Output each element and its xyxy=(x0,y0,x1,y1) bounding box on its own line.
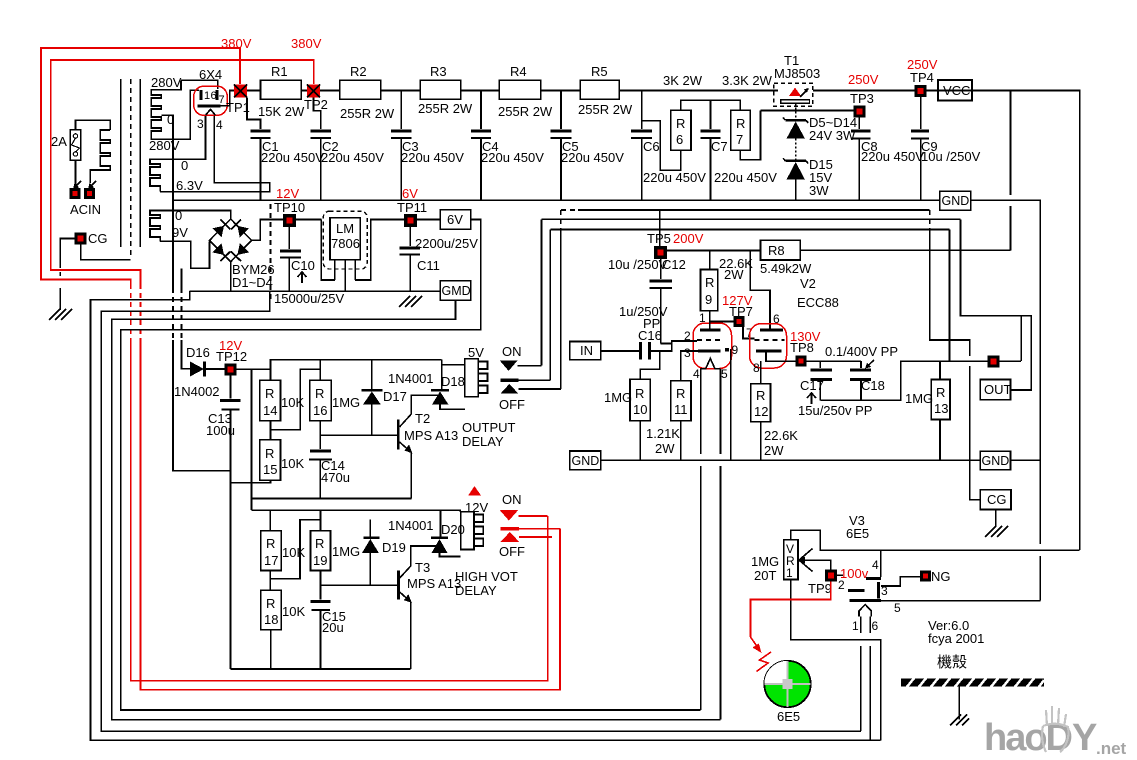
capacitor C10 xyxy=(288,227,290,249)
wire chassis to earth xyxy=(958,687,960,720)
wire pin4 plate xyxy=(880,550,882,577)
svg-text:1.21K: 1.21K xyxy=(646,426,680,441)
capacitor C12 xyxy=(660,259,662,279)
wire emitter return xyxy=(252,498,412,500)
plate pin1 bar xyxy=(199,90,202,100)
svg-text:LM: LM xyxy=(336,221,354,236)
svg-text:14: 14 xyxy=(263,403,277,418)
capacitor C7 xyxy=(710,100,712,129)
resistor R18 xyxy=(261,590,282,630)
svg-text:6.3V: 6.3V xyxy=(176,178,203,193)
resistor R7 xyxy=(731,110,751,150)
svg-text:T3: T3 xyxy=(415,560,430,575)
svg-text:6E5: 6E5 xyxy=(846,526,869,541)
svg-text:1N4001: 1N4001 xyxy=(388,371,434,386)
svg-text:6: 6 xyxy=(211,90,217,102)
triode2 envelope red xyxy=(750,324,787,369)
svg-text:GND: GND xyxy=(942,194,970,208)
capacitor C14 xyxy=(310,450,331,453)
svg-text:10u /250V: 10u /250V xyxy=(608,257,668,272)
relay coil K1 xyxy=(465,359,479,397)
svg-text:280V: 280V xyxy=(149,138,180,153)
capacitor C16 xyxy=(639,342,642,360)
svg-text:7: 7 xyxy=(736,132,743,147)
resistor R12 xyxy=(751,384,771,422)
svg-text:3: 3 xyxy=(684,346,691,360)
T2 collector xyxy=(400,395,442,427)
plate bar V3 xyxy=(866,577,881,580)
R13 legs xyxy=(939,361,941,379)
wire red 380V inner loop left xyxy=(51,60,314,284)
capacitor C1 xyxy=(247,98,261,130)
svg-text:4: 4 xyxy=(693,367,700,381)
switch ON contact red xyxy=(500,510,519,521)
svg-text:6: 6 xyxy=(676,132,683,147)
svg-text:4: 4 xyxy=(216,118,223,132)
svg-text:220u 450V: 220u 450V xyxy=(714,170,777,185)
resistor R19 xyxy=(320,510,322,531)
wire V2 heater pin4 xyxy=(700,369,702,454)
wire cathode V3 to gnd riser xyxy=(881,600,1040,602)
svg-text:22.6K: 22.6K xyxy=(764,428,798,443)
wire bus2 V3 heater xyxy=(101,291,861,731)
wire COM to bus xyxy=(518,379,550,381)
wire red ON to loop xyxy=(518,515,547,517)
svg-text:4: 4 xyxy=(872,558,879,572)
wire ON to bus xyxy=(518,365,542,367)
svg-text:6E5: 6E5 xyxy=(777,709,800,724)
wire CG bottom to core shield xyxy=(81,245,131,260)
svg-text:24V 3W: 24V 3W xyxy=(809,128,856,143)
resistor R9 leg xyxy=(709,251,711,270)
svg-text:ON: ON xyxy=(502,344,522,359)
capacitor C18 xyxy=(860,361,862,368)
grid1 dashed xyxy=(697,339,721,341)
wire R10 to gnd xyxy=(639,421,641,460)
svg-text:C10: C10 xyxy=(291,258,315,273)
wire delay rail jog xyxy=(271,360,442,370)
T1 red emitter triangle xyxy=(789,88,801,97)
svg-text:GND: GND xyxy=(982,454,1010,468)
diode D18 xyxy=(441,360,443,389)
VR1 wiper arrow xyxy=(799,549,813,561)
cathode bar 6X4 xyxy=(198,104,221,107)
T1 base bar xyxy=(781,100,810,104)
wire OUT line riser xyxy=(1020,316,1022,361)
wire 6.3V bottom to pin4 xyxy=(160,116,270,192)
wire red OFF stub xyxy=(519,536,552,538)
testpoint TP4 xyxy=(915,85,927,97)
svg-text:15: 15 xyxy=(263,462,277,477)
svg-text:17: 17 xyxy=(264,553,278,568)
svg-text:1MG: 1MG xyxy=(905,391,933,406)
wire OFF to bus xyxy=(518,388,561,390)
wire V3 heater pin6 xyxy=(869,616,871,633)
switch OFF contact xyxy=(501,384,519,394)
wire TP10 to LM7806 xyxy=(296,219,321,221)
svg-text:D17: D17 xyxy=(383,389,407,404)
testpoint TP5 xyxy=(654,246,667,259)
svg-text:CG: CG xyxy=(987,492,1007,507)
arrow into ACIN L xyxy=(74,181,81,188)
wire 200V rail xyxy=(667,250,761,252)
capacitor C5 xyxy=(560,91,562,130)
svg-text:220u 450V: 220u 450V xyxy=(481,150,544,165)
svg-text:C18: C18 xyxy=(861,378,885,393)
wire lower emitter/ground return xyxy=(231,668,411,670)
testpoint TP9 xyxy=(825,569,837,581)
resistor R11 xyxy=(671,381,691,421)
svg-text:TP9: TP9 xyxy=(808,581,832,596)
svg-text:7806: 7806 xyxy=(331,236,360,251)
zener stack D5~D14 xyxy=(785,119,806,121)
svg-text:5V: 5V xyxy=(468,345,484,360)
grid bar V3 xyxy=(848,589,864,592)
svg-text:NG: NG xyxy=(931,569,951,584)
resistor R8 xyxy=(761,240,801,260)
wire GMD to bus3 xyxy=(112,300,721,720)
resistor R2 xyxy=(340,80,381,99)
VCC riser with gap xyxy=(1010,91,1012,195)
cathode bar V3 xyxy=(849,599,881,602)
svg-text:TP5: TP5 xyxy=(647,231,671,246)
dashed shield line xyxy=(270,204,272,300)
svg-text:6: 6 xyxy=(872,619,879,633)
svg-text:18: 18 xyxy=(264,612,278,627)
svg-text:1: 1 xyxy=(852,619,859,633)
svg-text:5.49k2W: 5.49k2W xyxy=(760,261,812,276)
terminal box GMD xyxy=(440,281,471,301)
svg-text:D18: D18 xyxy=(441,374,465,389)
wire 9V top to bridge xyxy=(160,211,231,221)
diode D19 xyxy=(369,520,371,537)
svg-text:R: R xyxy=(315,536,324,551)
svg-text:ACIN: ACIN xyxy=(70,202,101,217)
secondary 280V winding xyxy=(151,80,199,139)
svg-text:200V: 200V xyxy=(673,231,704,246)
svg-text:TP3: TP3 xyxy=(850,91,874,106)
svg-text:3K 2W: 3K 2W xyxy=(663,73,703,88)
svg-text:R: R xyxy=(756,388,765,403)
svg-text:TP2: TP2 xyxy=(304,97,328,112)
bus COM riser xyxy=(550,229,949,231)
wire R8 right to VCC riser xyxy=(800,249,1010,251)
wire 0-tap dashed crossing xyxy=(172,288,174,340)
dotted link zeners xyxy=(795,139,797,161)
wire R9 bottom to plate1 xyxy=(709,311,711,330)
svg-text:220u 450V: 220u 450V xyxy=(861,149,924,164)
svg-text:ON: ON xyxy=(502,492,522,507)
wire caps bottom to OUT line xyxy=(820,361,1021,400)
svg-text:2: 2 xyxy=(838,578,845,592)
regulator U1 LM7806 dashed outline xyxy=(323,211,367,269)
svg-text:13: 13 xyxy=(934,401,948,416)
capacitor C4 xyxy=(480,91,482,130)
wire cathode to B+ rail xyxy=(220,91,234,106)
resistor R3 xyxy=(420,80,461,99)
svg-text:250V: 250V xyxy=(848,72,879,87)
secondary 9V winding xyxy=(150,211,160,242)
resistor R15 xyxy=(260,440,281,481)
svg-text:0: 0 xyxy=(167,112,174,127)
terminal ACIN left xyxy=(70,188,81,199)
svg-text:R: R xyxy=(705,275,714,290)
svg-text:1MG: 1MG xyxy=(332,544,360,559)
svg-text:TP12: TP12 xyxy=(216,349,247,364)
svg-text:9V: 9V xyxy=(172,225,188,240)
svg-text:2W: 2W xyxy=(724,267,744,282)
svg-text:OUTPUT: OUTPUT xyxy=(462,420,516,435)
testpoint TP8 xyxy=(796,355,807,366)
red wire TP9 to eye pointer xyxy=(751,582,831,638)
wire TP3 line xyxy=(761,110,854,112)
red zigzag flash xyxy=(757,652,772,672)
svg-text:5: 5 xyxy=(894,601,901,615)
svg-text:1N4001: 1N4001 xyxy=(388,518,434,533)
svg-text:15K 2W: 15K 2W xyxy=(258,104,305,119)
pin3 target bar xyxy=(877,582,880,599)
svg-text:D1~D4: D1~D4 xyxy=(232,275,273,290)
svg-text:C6: C6 xyxy=(643,139,660,154)
wire TP12 rail xyxy=(237,368,271,370)
cathode2 bar xyxy=(756,349,782,352)
pointer arrow to C18 xyxy=(866,360,874,368)
svg-text:GMD: GMD xyxy=(442,284,471,298)
svg-text:1MG: 1MG xyxy=(751,554,779,569)
earth symbol chassis xyxy=(950,715,961,726)
svg-text:MPS A13: MPS A13 xyxy=(407,576,461,591)
transformer core left xyxy=(120,79,122,247)
svg-text:1: 1 xyxy=(699,311,706,325)
svg-text:1N4002: 1N4002 xyxy=(174,384,220,399)
svg-text:fcya 2001: fcya 2001 xyxy=(928,631,984,646)
signal ground bus xyxy=(601,459,980,461)
svg-text:MPS A13: MPS A13 xyxy=(404,428,458,443)
wire V3 heater pin1 xyxy=(860,616,862,633)
B+ far right riser xyxy=(938,91,1080,551)
wire R16 to C14/base xyxy=(319,421,321,449)
ground symbol under C11 xyxy=(399,296,410,307)
svg-text:470u: 470u xyxy=(321,470,350,485)
svg-text:2A: 2A xyxy=(51,134,67,149)
LV ground rail xyxy=(190,290,441,292)
T3 emitter with arrow xyxy=(400,592,411,602)
svg-text:C12: C12 xyxy=(662,257,686,272)
svg-text:TP11: TP11 xyxy=(397,200,427,215)
switch common bar xyxy=(501,378,519,382)
svg-text:20u: 20u xyxy=(322,620,344,635)
wire R12 to gnd xyxy=(760,422,762,461)
svg-text:12: 12 xyxy=(754,404,768,419)
svg-text:11: 11 xyxy=(674,402,688,417)
svg-text:255R 2W: 255R 2W xyxy=(498,104,553,119)
svg-text:R: R xyxy=(936,385,945,400)
wire R5 to T1 xyxy=(619,90,778,92)
svg-text:3: 3 xyxy=(197,117,204,131)
arrow into ACIN R xyxy=(89,181,96,188)
svg-text:16: 16 xyxy=(313,403,327,418)
svg-text:15u/250v PP: 15u/250v PP xyxy=(798,403,872,418)
wire red vertical to bottom loop2 xyxy=(141,342,561,690)
polarity arrow C17 xyxy=(811,393,813,404)
transistor T1 MJ8503 dashed box xyxy=(774,83,813,106)
svg-text:6V: 6V xyxy=(402,186,418,201)
terminal CG chassis xyxy=(75,233,87,245)
cathode1 bar xyxy=(698,349,721,352)
svg-text:OFF: OFF xyxy=(499,544,525,559)
bus right OFF to CG xyxy=(929,210,931,228)
wire plate1 to TP7 xyxy=(710,321,734,323)
wire pin3 to NG xyxy=(881,577,920,586)
svg-text:R4: R4 xyxy=(510,64,527,79)
svg-text:TP8: TP8 xyxy=(790,340,814,355)
wire GND right to riser xyxy=(1011,459,1041,461)
svg-text:220u 450V: 220u 450V xyxy=(261,150,324,165)
ground symbol bottom-left xyxy=(59,288,61,310)
wire V2 heater pin5 xyxy=(720,369,722,454)
wire R1 to TP2 xyxy=(301,90,307,92)
svg-text:15000u/25V: 15000u/25V xyxy=(274,291,344,306)
svg-text:C7: C7 xyxy=(711,139,728,154)
svg-text:IN: IN xyxy=(580,343,593,358)
svg-text:R8: R8 xyxy=(768,243,785,258)
svg-text:R: R xyxy=(266,536,275,551)
wire R7 bottom to TP3 line xyxy=(740,111,760,160)
wire coil top pin xyxy=(442,364,465,366)
switch ON contact xyxy=(500,360,518,371)
svg-text:R2: R2 xyxy=(350,64,367,79)
svg-text:220u 450V: 220u 450V xyxy=(643,170,706,185)
testpoint TP1 xyxy=(234,85,247,98)
wire red COM to loop xyxy=(519,528,560,530)
testpoint TP2 xyxy=(307,85,320,98)
capacitor C3 xyxy=(400,91,402,130)
svg-text:12V: 12V xyxy=(465,500,488,515)
wire R18 bottom xyxy=(270,630,272,669)
svg-text:D19: D19 xyxy=(382,540,406,555)
svg-text:220u 450V: 220u 450V xyxy=(321,150,384,165)
svg-text:R: R xyxy=(265,446,274,461)
svg-text:9: 9 xyxy=(705,292,712,307)
wire 6.3V top to pin3 xyxy=(160,116,205,159)
svg-text:380V: 380V xyxy=(221,36,252,51)
svg-text:6X4: 6X4 xyxy=(199,67,222,82)
wire R4 to R5 xyxy=(541,90,581,92)
resistor R10 xyxy=(630,379,650,420)
plate1 bar xyxy=(700,328,721,331)
bus 200V to OFF (dashed start) xyxy=(578,209,930,211)
wire VR1 bottom return xyxy=(791,580,881,741)
resistor R14 xyxy=(270,369,272,380)
tube V1 6X4 envelope xyxy=(194,86,227,115)
diode D20 xyxy=(440,510,442,536)
capacitor C2 xyxy=(314,98,321,130)
wire rail TP1 to R1 xyxy=(247,90,261,92)
wire fuse bottom to ACIN xyxy=(75,160,77,186)
wire TP11 to 6V box xyxy=(417,219,440,221)
svg-text:MJ8503: MJ8503 xyxy=(774,66,820,81)
svg-text:R: R xyxy=(635,386,644,401)
wire R2 to R3 xyxy=(381,90,420,92)
relay coil K2 xyxy=(461,512,474,550)
wire TP7 to grid2 xyxy=(743,327,755,339)
svg-text:255R 2W: 255R 2W xyxy=(340,106,395,121)
svg-text:TP4: TP4 xyxy=(910,70,934,85)
regulator U1 LM7806 body xyxy=(330,218,360,260)
svg-text:0.1/400V PP: 0.1/400V PP xyxy=(825,344,898,359)
svg-text:機殼: 機殼 xyxy=(937,654,967,671)
wire red dashed segment bus2 xyxy=(140,284,142,342)
terminal box OUT xyxy=(980,380,1010,400)
svg-text:12V: 12V xyxy=(276,186,299,201)
wire C16 out xyxy=(651,341,672,351)
svg-text:C11: C11 xyxy=(417,258,440,273)
resistor R5 xyxy=(580,80,619,99)
wire grid1 lead xyxy=(661,341,697,344)
wire fuse top to primary xyxy=(76,120,111,130)
capacitor C11 xyxy=(409,227,411,246)
wire TP5 riser xyxy=(659,210,661,246)
svg-text:C17: C17 xyxy=(800,378,824,393)
svg-text:T2: T2 xyxy=(415,411,430,426)
terminal box VCC xyxy=(938,80,972,101)
svg-text:6: 6 xyxy=(773,312,780,326)
polarity arrow C10 xyxy=(301,272,303,283)
wire CG left to ground xyxy=(60,239,74,269)
wire R19 to C15/base xyxy=(320,571,322,600)
svg-text:280V: 280V xyxy=(151,75,182,90)
transformer core right xyxy=(139,79,141,247)
testpoint OUT red square xyxy=(988,356,1000,368)
GND right riser xyxy=(971,200,1041,544)
svg-text:R: R xyxy=(266,596,275,611)
watermark haoDIY.net xyxy=(984,717,1127,759)
svg-text:R: R xyxy=(315,386,324,401)
wire B+ line to VR1 xyxy=(791,530,1080,550)
svg-text:R: R xyxy=(676,116,685,131)
capacitor C13 xyxy=(230,375,232,398)
wire R17-R18 node xyxy=(269,571,271,591)
svg-text:255R 2W: 255R 2W xyxy=(418,101,473,116)
svg-text:R: R xyxy=(676,386,685,401)
plate pin6 bar xyxy=(215,90,218,100)
svg-text:2W: 2W xyxy=(764,443,784,458)
svg-text:3.3K 2W: 3.3K 2W xyxy=(722,73,773,88)
svg-text:R: R xyxy=(265,386,274,401)
transistor T2 base bar xyxy=(397,419,400,449)
resistor R9 xyxy=(701,270,718,311)
wire 12V feed down to D16 xyxy=(181,268,183,288)
svg-text:10: 10 xyxy=(633,402,647,417)
svg-text:D16: D16 xyxy=(186,345,210,360)
capacitor C8 xyxy=(858,118,860,130)
svg-text:R5: R5 xyxy=(591,64,608,79)
wire 12V to lower stage xyxy=(251,369,253,510)
terminal box GND left xyxy=(570,451,601,470)
triode1 envelope red xyxy=(693,323,732,369)
wire U1 output xyxy=(355,220,404,281)
resistor R6 xyxy=(671,110,691,150)
svg-text:R3: R3 xyxy=(430,64,447,79)
wire TP8 to caps xyxy=(807,360,862,362)
wire cathode1 to R11 xyxy=(681,351,698,381)
terminal box GND right xyxy=(980,451,1010,470)
terminal ACIN right xyxy=(84,188,95,199)
capacitor C6 xyxy=(641,91,643,130)
wire D16 to TP12 xyxy=(206,368,225,370)
svg-text:1: 1 xyxy=(786,566,793,580)
svg-text:C16: C16 xyxy=(638,328,662,343)
